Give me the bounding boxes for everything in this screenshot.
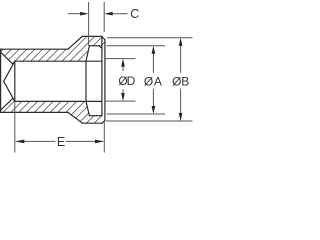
dimension C [68, 2, 128, 46]
countersink bevel lower line [1, 98, 13, 110]
body outline [0, 36, 105, 123]
bore bottom line [15, 100, 102, 102]
C leader right [112, 13, 128, 15]
svg-text:ØA: ØA [144, 74, 162, 88]
D dim stem bottom [122, 90, 124, 97]
D arrow down [121, 93, 125, 101]
D bottom extension [106, 100, 136, 102]
socket top line [89, 45, 99, 47]
flange face outer vertical [104, 40, 106, 121]
top taper to flange [68, 36, 82, 49]
svg-text:E: E [57, 135, 65, 149]
A dim stem bottom [152, 89, 154, 109]
flange bottom chamfer [102, 120, 105, 123]
D top extension [106, 58, 136, 60]
socket mouth chamfer [99, 46, 102, 49]
flange top chamfer [102, 36, 105, 39]
E dim line left segment [24, 140, 56, 142]
hatching (section lines, 45deg) [0, 0, 254, 141]
B dim stem bottom [180, 89, 182, 116]
flange face inner vertical [101, 36, 103, 115]
A arrow up [152, 46, 156, 54]
E dim line right segment [66, 140, 96, 142]
B arrow up [179, 38, 183, 46]
dimension A extension lines [107, 46, 166, 114]
B bottom extension [106, 120, 193, 122]
socket cone lower [86, 101, 89, 115]
C arrow right [104, 12, 113, 16]
svg-text:ØD: ØD [118, 74, 135, 88]
E arrow left [15, 140, 24, 144]
bore end vertical [14, 61, 16, 101]
countersink bevel upper line [1, 52, 13, 64]
hatch lines [0, 0, 254, 141]
C extension line left [88, 2, 90, 46]
dimension D extension lines [106, 59, 136, 102]
A dim stem top [152, 51, 154, 73]
dimension B extension lines [106, 38, 193, 121]
bore top line [15, 60, 102, 62]
bottom taper to flange [68, 112, 82, 123]
D dim stem top [122, 64, 124, 71]
A bottom extension [107, 113, 166, 115]
A arrow down [152, 106, 156, 114]
B dim stem top [180, 43, 182, 73]
flange top [82, 35, 102, 37]
left end face [0, 49, 2, 112]
B top extension [107, 37, 192, 39]
D arrow up [121, 59, 125, 67]
outer top surface [0, 48, 68, 50]
E arrow right [95, 140, 104, 144]
drill cone upper line [4, 61, 15, 81]
svg-text:ØB: ØB [172, 74, 189, 88]
C arrow left [80, 12, 89, 16]
flange bottom [82, 122, 102, 124]
svg-text:C: C [130, 7, 139, 21]
C extension line right [103, 2, 105, 32]
B arrow down [179, 113, 183, 121]
dimension E [15, 102, 105, 153]
outer bottom surface [0, 111, 68, 113]
A top extension [107, 45, 166, 47]
socket cone upper [86, 46, 89, 61]
drill cone lower line [4, 81, 15, 101]
projected bore edge in socket [85, 61, 87, 101]
socket bottom line [89, 115, 102, 117]
C leader left [68, 13, 81, 15]
E extension line right [103, 121, 105, 152]
E extension line left [14, 102, 16, 153]
